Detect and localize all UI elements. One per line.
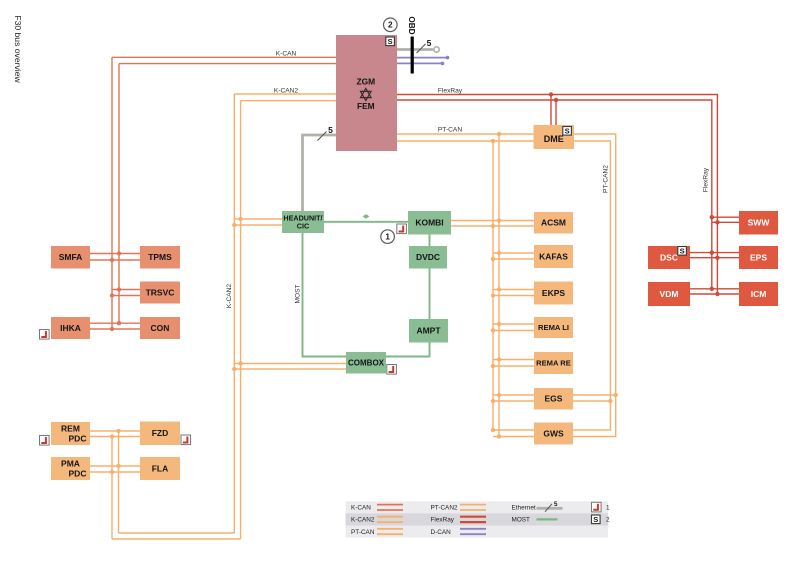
- junction K-CAN SMFA row: [117, 251, 121, 255]
- wire PT-CAN branch EKPS: [493, 289, 534, 291]
- svg-text:FZD: FZD: [152, 428, 169, 438]
- svg-text:FLA: FLA: [152, 464, 169, 474]
- wire FlexRay drop to DME: [550, 95, 552, 126]
- wire K-CAN2 branch HEADUNIT: [234, 218, 282, 220]
- direction arrow MOST: [363, 214, 370, 219]
- wire MOST COMBOX to HEADUNIT: [303, 233, 347, 357]
- step icon COMBOX: [387, 365, 397, 375]
- wire MOST KOMBI to DVDC: [429, 235, 431, 247]
- junction PT-CAN2 EGS row: [614, 393, 618, 397]
- svg-text:SWW: SWW: [748, 218, 771, 228]
- svg-text:PDC: PDC: [69, 433, 87, 443]
- ECU DSC: [648, 246, 690, 269]
- junction PT-CAN REMA RE row: [497, 357, 501, 361]
- ECU HEADUNIT/CIC: [282, 211, 324, 233]
- svg-text:KAFAS: KAFAS: [539, 252, 568, 262]
- svg-text:FEM: FEM: [357, 101, 375, 111]
- svg-text:S: S: [388, 37, 393, 46]
- wire PT-CAN2 branch EGS right: [573, 394, 616, 396]
- wire K-CAN vertical left trunk: [111, 57, 113, 329]
- junction PT-CAN GWS row: [491, 428, 495, 432]
- ECU PMA PDC: [51, 457, 90, 480]
- ECU KAFAS: [534, 245, 573, 268]
- wire K-CAN2 horizontal from ZGM: [234, 93, 336, 95]
- svg-text:EPS: EPS: [750, 253, 767, 263]
- wire K-CAN horizontal from ZGM: [112, 56, 336, 58]
- svg-text:EGS: EGS: [545, 394, 563, 404]
- wire PT-CAN branch REMA RE: [493, 359, 534, 361]
- svg-text:COMBOX: COMBOX: [348, 359, 385, 368]
- step icon FZD: [181, 435, 191, 445]
- svg-text:MOST: MOST: [294, 284, 301, 303]
- svg-text:TPMS: TPMS: [148, 252, 172, 262]
- svg-text:ZGM: ZGM: [356, 76, 375, 86]
- svg-text:TRSVC: TRSVC: [146, 288, 175, 298]
- svg-text:2: 2: [388, 21, 393, 30]
- svg-text:PT-CAN2: PT-CAN2: [603, 165, 610, 193]
- ECU REMA LI: [534, 317, 573, 338]
- connector ring Ethernet: [434, 47, 439, 52]
- wire PT-CAN branch REMA LI: [493, 323, 534, 325]
- junction FlexRay SWW row: [710, 215, 714, 219]
- svg-text:D-CAN: D-CAN: [431, 529, 452, 536]
- svg-text:VDM: VDM: [660, 289, 679, 299]
- ECU ACSM: [534, 212, 573, 234]
- ECU SWW: [739, 211, 778, 235]
- svg-text:5: 5: [554, 501, 558, 508]
- wire K-CAN2 branch REM PDC-FZD: [90, 430, 140, 432]
- svg-text:K-CAN2: K-CAN2: [274, 87, 299, 94]
- wire K-CAN2 branch COMBOX: [234, 363, 346, 365]
- ECU COMBOX: [346, 352, 386, 374]
- wire K-CAN2 vertical trunk: [233, 94, 235, 533]
- wire MOST DVDC to AMPT: [429, 269, 431, 320]
- circled note 2: [384, 18, 398, 32]
- svg-text:F30 bus overview: F30 bus overview: [13, 15, 23, 83]
- svg-text:FlexRay: FlexRay: [702, 167, 709, 192]
- svg-text:REMA LI: REMA LI: [538, 323, 569, 332]
- ECU ICM: [739, 282, 778, 306]
- junction PT-CAN EKPS row: [497, 287, 501, 291]
- svg-text:S: S: [565, 126, 570, 135]
- svg-text:REMA RE: REMA RE: [536, 359, 571, 368]
- svg-text:DVDC: DVDC: [416, 252, 440, 262]
- junction K-CAN2 FZD row: [116, 429, 120, 433]
- slash 5 wires OBD: [417, 44, 426, 53]
- wire MOST HEADUNIT to KOMBI: [324, 221, 408, 223]
- svg-text:CON: CON: [151, 323, 170, 333]
- wire D-CAN line 2: [397, 62, 443, 64]
- step icon KOMBI: [397, 224, 407, 234]
- wire FlexRay branch SWW: [712, 216, 739, 218]
- svg-text:1: 1: [606, 505, 610, 512]
- svg-text:DME: DME: [544, 134, 564, 144]
- ECU IHKA: [51, 317, 90, 339]
- ECU CON: [140, 317, 180, 339]
- svg-text:S: S: [680, 246, 685, 255]
- junction K-CAN2 COMBOX row: [238, 361, 242, 365]
- legend step icon: [592, 502, 602, 512]
- wire PT-CAN branch KOMBI-ACSM: [451, 220, 534, 222]
- svg-text:5: 5: [328, 125, 333, 135]
- ECU AMPT: [409, 319, 448, 343]
- svg-text:K-CAN: K-CAN: [351, 505, 371, 512]
- legend background rows: [346, 501, 609, 513]
- wire PT-CAN ZGM to DME: [397, 133, 534, 135]
- ECU TRSVC: [140, 282, 180, 304]
- svg-text:FlexRay: FlexRay: [438, 87, 463, 94]
- junction K-CAN2 FLA row: [116, 464, 120, 468]
- svg-text:REM: REM: [61, 424, 80, 434]
- wire Ethernet to OBD connector: [397, 48, 433, 51]
- junction FlexRay DME drop: [549, 92, 553, 96]
- wire K-CAN branch SMFA-TPMS: [90, 253, 140, 255]
- svg-text:FlexRay: FlexRay: [431, 517, 455, 524]
- svg-text:SMFA: SMFA: [59, 252, 83, 262]
- svg-text:PDC: PDC: [69, 468, 87, 478]
- junction PT-CAN REMA LI row: [497, 322, 501, 326]
- wire FlexRay branch VDM-ICM: [690, 288, 739, 290]
- step icon IHKA: [40, 330, 50, 340]
- junction PT-CAN ACSM row: [497, 218, 501, 222]
- wire PT-CAN branch GWS left: [493, 429, 534, 431]
- wire PT-CAN branch EGS left: [493, 394, 534, 396]
- svg-text:5: 5: [427, 38, 432, 48]
- ECU GWS: [534, 423, 573, 445]
- ECU DME: [534, 125, 575, 149]
- ECU SMFA: [51, 246, 90, 269]
- S badge DSC: [678, 246, 687, 255]
- svg-text:MOST: MOST: [512, 517, 531, 524]
- wire K-CAN2 vertical left riser: [118, 431, 120, 533]
- svg-text:DSC: DSC: [660, 253, 678, 263]
- S badge ZGM: [386, 37, 395, 46]
- svg-text:ICM: ICM: [751, 289, 767, 299]
- svg-text:1: 1: [385, 233, 390, 242]
- svg-text:K-CAN2: K-CAN2: [226, 284, 233, 309]
- wire FlexRay from ZGM to right trunk: [397, 95, 717, 295]
- svg-text:KOMBI: KOMBI: [415, 218, 443, 228]
- junction K-CAN2 HEADUNIT row: [238, 217, 242, 221]
- svg-text:AMPT: AMPT: [416, 326, 441, 336]
- junction K-CAN IHKA row: [117, 321, 121, 325]
- wire PT-CAN2 from DME: [573, 134, 616, 437]
- wire K-CAN branch IHKA-CON: [90, 322, 140, 324]
- svg-text:EKPS: EKPS: [542, 288, 565, 298]
- ECU TPMS: [140, 246, 180, 269]
- wire D-CAN line 1: [397, 57, 448, 59]
- svg-text:PT-CAN: PT-CAN: [438, 127, 462, 134]
- svg-text:PT-CAN: PT-CAN: [351, 529, 375, 536]
- ECU REMA RE: [534, 352, 573, 374]
- ECU EPS: [739, 246, 778, 269]
- ECU EGS: [534, 388, 573, 410]
- svg-text:Ethernet: Ethernet: [512, 505, 536, 512]
- wire K-CAN2 branch PMA PDC-FLA: [90, 465, 140, 467]
- junction PT-CAN top: [497, 132, 501, 136]
- svg-text:OBD: OBD: [407, 16, 416, 34]
- wire MOST AMPT to COMBOX: [385, 343, 430, 357]
- svg-text:ACSM: ACSM: [541, 218, 566, 228]
- legend S badge: [592, 515, 601, 524]
- OBD connector bar: [411, 37, 414, 74]
- ECU REM PDC: [51, 422, 90, 445]
- svg-text:GWS: GWS: [543, 429, 564, 439]
- svg-text:PT-CAN2: PT-CAN2: [431, 505, 458, 512]
- circled note 1: [381, 230, 395, 244]
- junction FlexRay VDM row: [710, 287, 714, 291]
- svg-text:S: S: [593, 515, 598, 524]
- ECU ZGM / FEM: [336, 35, 397, 151]
- ECU VDM: [648, 282, 690, 306]
- ECU EKPS: [534, 282, 573, 305]
- junction PT-CAN EGS row: [497, 393, 501, 397]
- slash 5 wires HEADUNIT: [318, 132, 327, 141]
- gateway star icon: [361, 88, 372, 97]
- S badge DME: [563, 126, 572, 135]
- wire PT-CAN vertical trunk: [498, 134, 500, 437]
- junction K-CAN TRSVC row: [117, 287, 121, 291]
- ECU FLA: [140, 457, 180, 480]
- ECU FZD: [140, 422, 180, 446]
- svg-text:K-CAN2: K-CAN2: [351, 517, 375, 524]
- junction FlexRay DSC row: [710, 250, 714, 254]
- svg-text:2: 2: [606, 517, 610, 524]
- junction PT-CAN KAFAS row: [497, 251, 501, 255]
- svg-text:IHKA: IHKA: [60, 323, 81, 333]
- wire K-CAN branch TRSVC: [112, 289, 140, 291]
- wire Ethernet ZGM to HEADUNIT: [303, 135, 337, 211]
- wire PT-CAN branch KAFAS: [493, 252, 534, 254]
- wire K-CAN2 bottom run: [119, 532, 235, 534]
- svg-text:PMA: PMA: [61, 459, 80, 469]
- step icon REM PDC: [40, 436, 50, 446]
- svg-text:K-CAN: K-CAN: [276, 51, 297, 58]
- ECU KOMBI: [408, 211, 451, 235]
- wire FlexRay branch DSC-EPS: [690, 252, 739, 254]
- ECU DVDC: [409, 246, 447, 269]
- svg-text:CIC: CIC: [297, 222, 309, 231]
